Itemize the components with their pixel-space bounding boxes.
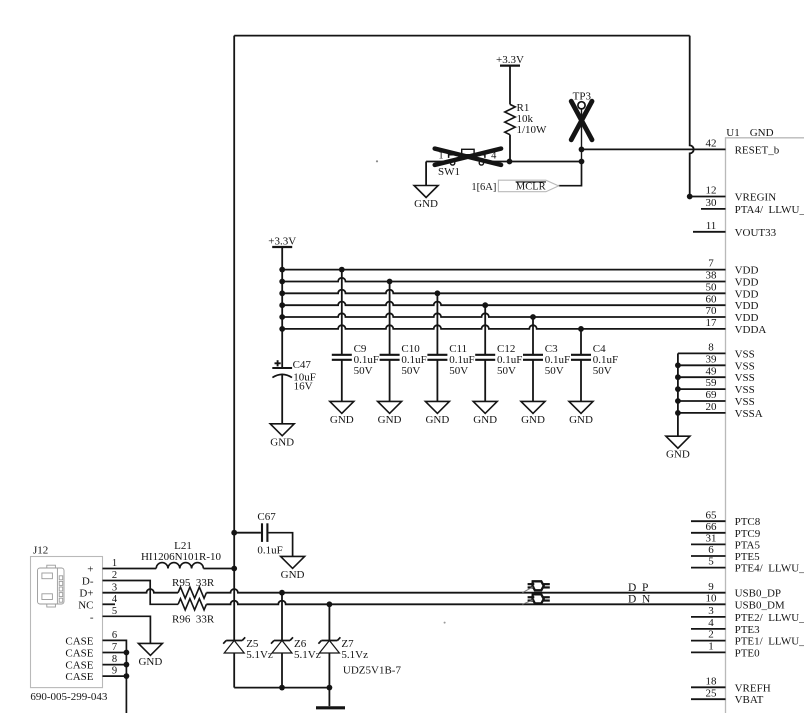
svg-text:VDD: VDD — [735, 300, 759, 312]
node TP3/RESET — [579, 147, 585, 153]
pin 11 stub — [693, 231, 726, 233]
wire bottom bus to plane — [328, 688, 330, 707]
J12 usb receptacle glyph — [38, 565, 65, 607]
node VBUS-VREGIN corner — [687, 194, 693, 200]
wire bottom bus — [234, 687, 329, 689]
node SW1/MCLR branch — [579, 159, 585, 165]
svg-text:D-: D- — [82, 576, 94, 588]
svg-text:PTA5: PTA5 — [735, 539, 761, 551]
connector J12 body — [31, 557, 103, 688]
svg-text:30: 30 — [706, 197, 718, 209]
svg-text:NC: NC — [78, 599, 93, 611]
wire +3.3V bus vertical — [281, 247, 283, 368]
svg-text:Z7: Z7 — [341, 638, 354, 650]
svg-text:GND: GND — [414, 198, 438, 210]
wire R1 to node — [509, 135, 511, 162]
svg-text:3: 3 — [112, 582, 117, 593]
pin 66 stub — [691, 532, 726, 534]
ground (C67) — [281, 556, 305, 581]
svg-text:PTE2/ LLWU_P6: PTE2/ LLWU_P6 — [735, 612, 804, 624]
svg-text:TP3: TP3 — [573, 91, 592, 103]
svg-text:VSS: VSS — [735, 372, 755, 384]
net-tie on D_P — [522, 581, 550, 592]
node CASE — [124, 662, 130, 668]
svg-text:VDDA: VDDA — [735, 324, 767, 336]
pin 2 stub — [691, 640, 726, 642]
signal flag MCLR outline — [498, 180, 558, 192]
switch SW1 contacts — [450, 161, 454, 165]
ground (C9) — [330, 401, 354, 426]
wire VDD bus line pin 70 — [282, 313, 725, 317]
wire C3 lower — [532, 360, 534, 402]
node CASE — [124, 650, 130, 656]
pin 5 stub — [691, 567, 726, 569]
wire RESET_b to pin42 — [582, 148, 726, 150]
net-tie on D_N — [522, 594, 550, 604]
svg-text:5.1Vz: 5.1Vz — [294, 649, 321, 661]
node C3 tap — [530, 314, 536, 320]
wire C12 lower — [484, 360, 486, 402]
svg-text:PTE4/ LLWU_P14: PTE4/ LLWU_P14 — [735, 563, 804, 575]
resistor R95 — [178, 587, 206, 598]
svg-text:3: 3 — [708, 605, 714, 617]
wire VDD bus line pin 17 — [282, 325, 725, 329]
svg-text:CASE: CASE — [65, 671, 93, 683]
node VSS 69 — [675, 398, 681, 404]
node VSS 49 — [675, 374, 681, 380]
node C10 tap — [387, 279, 393, 285]
node bottom bus Z7 — [327, 685, 333, 691]
node C9 tap — [339, 267, 345, 273]
svg-text:C67: C67 — [257, 511, 276, 523]
svg-text:PTA4/ LLWU_P3: PTA4/ LLWU_P3 — [735, 204, 804, 216]
svg-text:GND: GND — [425, 414, 449, 426]
svg-text:CASE: CASE — [65, 660, 93, 672]
wire C67 to GND corner — [269, 533, 293, 557]
pin 31 stub — [691, 543, 726, 545]
svg-text:VDD: VDD — [735, 312, 759, 324]
inductor L21 — [156, 563, 203, 569]
svg-text:GND: GND — [138, 656, 162, 668]
wire VBUS top — [234, 35, 690, 37]
wire Z5 column (VBUS) — [233, 640, 235, 642]
svg-text:5: 5 — [708, 556, 714, 568]
wire VBUS continues below C67 — [233, 533, 235, 641]
svg-text:PTE3: PTE3 — [735, 624, 761, 636]
switch SW1 bridge — [449, 155, 485, 158]
svg-text:PTE1/ LLWU_P5: PTE1/ LLWU_P5 — [735, 636, 804, 648]
svg-text:GND: GND — [666, 449, 690, 461]
svg-text:2: 2 — [112, 570, 117, 581]
svg-text:R96 33R: R96 33R — [172, 613, 215, 625]
svg-text:10: 10 — [706, 592, 718, 604]
svg-text:C47: C47 — [293, 359, 312, 371]
svg-text:7: 7 — [708, 258, 714, 270]
svg-text:12: 12 — [706, 185, 717, 197]
svg-text:+: + — [87, 564, 93, 576]
wire VBUS left border — [233, 36, 235, 533]
wire VSS stub pin 49 — [678, 376, 726, 378]
wire C4 upper — [580, 329, 582, 355]
svg-text:Z6: Z6 — [294, 638, 307, 650]
svg-text:70: 70 — [706, 305, 718, 317]
svg-text:8: 8 — [708, 342, 714, 354]
resistor R1 — [505, 104, 515, 134]
svg-text:1: 1 — [708, 641, 714, 653]
wire VDD bus line pin 7 — [282, 269, 725, 271]
node bus-left 17 — [279, 326, 285, 332]
svg-text:Z5: Z5 — [246, 638, 259, 650]
svg-text:PTC9: PTC9 — [735, 528, 761, 540]
svg-text:4: 4 — [112, 594, 118, 605]
svg-text:VDD: VDD — [735, 277, 759, 289]
svg-text:USB0_DP: USB0_DP — [735, 588, 781, 600]
svg-text:50V: 50V — [545, 365, 564, 377]
wire VBUS right with hop over RESET — [690, 36, 694, 197]
wire VDD bus line pin 50 — [282, 290, 725, 294]
node bottom bus Z6 — [279, 685, 285, 691]
pin 25 stub — [691, 698, 726, 700]
svg-text:50V: 50V — [497, 365, 516, 377]
svg-text:PTC8: PTC8 — [735, 516, 761, 528]
svg-text:25: 25 — [706, 687, 718, 699]
wire CASE stub — [103, 652, 127, 654]
svg-text:SW1: SW1 — [438, 166, 460, 178]
zener Z6 — [271, 637, 293, 653]
svg-text:38: 38 — [706, 270, 718, 282]
svg-text:1/10W: 1/10W — [517, 124, 548, 136]
node bus-left 60 — [279, 302, 285, 308]
wire MCLR branch — [559, 162, 582, 186]
svg-text:+3.3V: +3.3V — [268, 235, 296, 247]
svg-text:+3.3V: +3.3V — [496, 54, 524, 66]
node C11 tap — [435, 290, 441, 296]
svg-text:VDD: VDD — [735, 265, 759, 277]
svg-text:2: 2 — [708, 629, 714, 641]
power +3.3V (VDD bus) — [268, 235, 296, 247]
node bus-left 70 — [279, 314, 285, 320]
svg-text:CASE: CASE — [65, 648, 93, 660]
zener Z7 — [318, 637, 340, 653]
capacitor C67 — [261, 523, 263, 542]
ground (C10) — [378, 401, 402, 426]
node bus-left 7 — [279, 267, 285, 273]
svg-text:1[6A]: 1[6A] — [471, 182, 496, 193]
svg-text:VOUT33: VOUT33 — [735, 227, 777, 239]
wire VDD bus line pin 38 — [282, 278, 725, 282]
wire VSS bus vertical — [677, 353, 679, 436]
capacitor C12 — [475, 354, 495, 356]
svg-text:6: 6 — [112, 630, 117, 641]
svg-text:D_N: D_N — [628, 594, 651, 606]
pin 4 stub — [691, 628, 726, 630]
wire VSS stub pin 20 — [678, 412, 726, 414]
svg-text:VSS: VSS — [735, 396, 755, 408]
wire VSS stub pin 69 — [678, 400, 726, 402]
ground (C3) — [521, 401, 545, 426]
wire VDD bus line pin 60 — [282, 302, 725, 306]
wire SW1 pin1 left — [426, 161, 449, 163]
svg-text:PTE5: PTE5 — [735, 551, 761, 563]
svg-text:42: 42 — [706, 137, 717, 149]
op-amp U1 (MCU body outline) — [726, 138, 804, 713]
svg-text:0.1uF: 0.1uF — [257, 545, 282, 557]
svg-text:UDZ5V1B-7: UDZ5V1B-7 — [343, 665, 402, 677]
svg-text:50V: 50V — [354, 365, 373, 377]
capacitor C10 — [380, 354, 400, 356]
wire TP3 lead — [581, 109, 583, 162]
svg-text:50: 50 — [706, 281, 718, 293]
svg-text:VSS: VSS — [735, 348, 755, 360]
node Z7 tap — [327, 601, 333, 607]
svg-text:690-005-299-043: 690-005-299-043 — [30, 691, 107, 703]
resistor R96 — [178, 599, 206, 610]
svg-text:50V: 50V — [593, 365, 612, 377]
wire Z6 to bottom bus — [281, 653, 283, 688]
node C4 tap — [578, 326, 584, 332]
zener Z5 — [223, 637, 245, 653]
wire C11 lower — [436, 360, 438, 402]
svg-text:69: 69 — [706, 389, 718, 401]
wire D_N (USB0_DM) — [206, 601, 725, 605]
svg-text:GND: GND — [378, 414, 402, 426]
pin 6 stub — [691, 555, 726, 557]
wire J12 pin3 (D+) with hop — [103, 589, 179, 593]
capacitor C4 — [571, 354, 591, 356]
svg-text:5.1Vz: 5.1Vz — [246, 649, 273, 661]
svg-text:50V: 50V — [401, 365, 420, 377]
svg-text:66: 66 — [706, 521, 718, 533]
wire D_P (USB0_DP) — [206, 589, 725, 593]
svg-text:-: - — [90, 611, 94, 623]
wire C11 upper — [436, 293, 438, 355]
ground plane bar — [316, 706, 345, 709]
wire C9 lower — [341, 360, 343, 402]
svg-text:5.1Vz: 5.1Vz — [341, 649, 368, 661]
capacitor C47 — [272, 367, 292, 369]
testpoint TP3 circle — [578, 102, 585, 109]
pin 65 stub — [691, 520, 726, 522]
svg-text:5: 5 — [112, 606, 117, 617]
wire VSS stub pin 8 — [678, 352, 726, 354]
svg-text:7: 7 — [112, 642, 117, 653]
svg-text:J12: J12 — [33, 545, 48, 557]
svg-text:GND: GND — [521, 414, 545, 426]
wire J12 pin1 to L21 — [103, 568, 157, 570]
DNP X over SW1 — [435, 149, 501, 165]
wire L21 to VBUS — [203, 568, 234, 570]
svg-text:U1: U1 — [726, 127, 739, 139]
svg-text:16V: 16V — [294, 380, 313, 392]
svg-text:GND: GND — [270, 436, 294, 448]
svg-text:CASE: CASE — [65, 635, 93, 647]
svg-text:11: 11 — [706, 220, 717, 232]
svg-text:VSSA: VSSA — [735, 408, 763, 420]
wire SW1 pin4 to TP3 node — [484, 161, 582, 163]
svg-text:R95 33R: R95 33R — [172, 577, 215, 589]
svg-text:VDD: VDD — [735, 288, 759, 300]
wire Z5 to bottom bus — [233, 653, 235, 688]
svg-text:GND: GND — [330, 414, 354, 426]
wire C9 upper — [341, 270, 343, 355]
wire C47 to GND — [281, 374, 283, 424]
svg-text:31: 31 — [706, 533, 717, 545]
svg-text:D_P: D_P — [628, 582, 648, 594]
wire VSS stub pin 59 — [678, 388, 726, 390]
wire J12 pin4 NC stub — [103, 603, 116, 605]
pin 1 stub — [691, 651, 726, 653]
pin 30 stub — [701, 208, 726, 210]
wire VREGIN pin12 stub — [690, 196, 726, 198]
node Z6 tap — [279, 590, 285, 596]
wire +3.3V to R1 — [509, 66, 511, 105]
svg-text:GND: GND — [750, 127, 774, 139]
svg-text:18: 18 — [706, 675, 718, 687]
svg-text:49: 49 — [706, 365, 718, 377]
wire VBUS to C67 — [234, 532, 261, 534]
wire Z7 to bottom bus — [328, 653, 330, 688]
speck — [376, 160, 378, 162]
svg-text:1: 1 — [112, 558, 117, 569]
node R1/SW1 — [507, 159, 513, 165]
ground (C11) — [425, 401, 449, 426]
wire C4 lower — [580, 360, 582, 402]
wire J12 CASE pins — [103, 640, 127, 713]
node VSS 59 — [675, 386, 681, 392]
MCLR overline — [516, 181, 546, 183]
wire Z7 column — [328, 604, 330, 640]
wire C3 upper — [532, 317, 534, 355]
svg-text:USB0_DM: USB0_DM — [735, 599, 785, 611]
ground (C4) — [569, 401, 593, 426]
node bus-left 50 — [279, 290, 285, 296]
svg-text:20: 20 — [706, 401, 718, 413]
wire SW1 left down to GND — [425, 162, 427, 186]
svg-text:GND: GND — [569, 414, 593, 426]
wire Z6 column — [281, 593, 283, 641]
svg-text:HI1206N101R-10: HI1206N101R-10 — [141, 551, 222, 563]
svg-text:17: 17 — [706, 317, 718, 329]
svg-text:GND: GND — [473, 414, 497, 426]
svg-text:GND: GND — [281, 569, 305, 581]
svg-text:9: 9 — [708, 581, 714, 593]
capacitor C11 — [427, 354, 447, 356]
svg-text:RESET_b: RESET_b — [735, 144, 780, 156]
node VSS 39 — [675, 362, 681, 368]
svg-text:59: 59 — [706, 377, 718, 389]
node CASE — [124, 673, 130, 679]
capacitor C9 — [332, 354, 352, 356]
svg-text:VREFH: VREFH — [735, 682, 771, 694]
ground (J12 pin5) — [138, 643, 162, 668]
node bus-left 38 — [279, 279, 285, 285]
capacitor C47 plus sign — [275, 362, 281, 364]
pin 3 stub — [691, 616, 726, 618]
node VBUS-C67 — [231, 530, 237, 536]
ground (VSS) — [666, 435, 690, 460]
svg-text:65: 65 — [706, 509, 718, 521]
wire J12 pin5 to GND — [103, 616, 151, 643]
wire J12 pin2 jog — [103, 581, 179, 605]
wire C10 lower — [389, 360, 391, 402]
node C12 tap — [482, 302, 488, 308]
svg-text:VSS: VSS — [735, 384, 755, 396]
capacitor C3 — [523, 354, 543, 356]
svg-text:50V: 50V — [449, 365, 468, 377]
svg-text:6: 6 — [708, 544, 714, 556]
svg-text:39: 39 — [706, 353, 718, 365]
switch SW1 actuator — [462, 149, 474, 154]
ground (C47) — [270, 423, 294, 448]
svg-text:VSS: VSS — [735, 360, 755, 372]
node VSS 20 — [675, 410, 681, 416]
svg-text:MCLR: MCLR — [516, 182, 546, 193]
svg-text:VREGIN: VREGIN — [735, 192, 777, 204]
svg-text:D+: D+ — [79, 588, 93, 600]
svg-text:PTE0: PTE0 — [735, 647, 761, 659]
svg-text:4: 4 — [708, 617, 714, 629]
wire CASE stub — [103, 675, 127, 677]
node VBUS-pin1 — [231, 566, 237, 572]
svg-text:8: 8 — [112, 654, 117, 665]
DNP X over TP3 — [571, 101, 592, 140]
power +3.3V (R1 pull-up) — [496, 54, 524, 66]
wire C12 upper — [484, 305, 486, 355]
ground (SW1) — [414, 185, 438, 210]
wire VSS stub pin 39 — [678, 364, 726, 366]
wire CASE stub — [103, 664, 127, 666]
wire C10 upper — [389, 282, 391, 355]
ground (C12) — [473, 401, 497, 426]
pin 18 stub — [691, 686, 726, 688]
svg-text:60: 60 — [706, 293, 718, 305]
svg-text:VBAT: VBAT — [735, 694, 764, 706]
svg-text:9: 9 — [112, 666, 117, 677]
